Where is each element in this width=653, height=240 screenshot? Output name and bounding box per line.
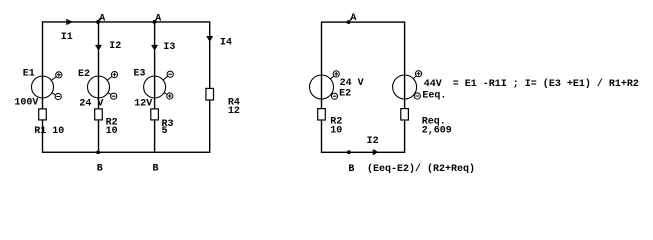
E2 plus terminal mark — [107, 72, 117, 81]
svg-text:E1: E1 — [23, 69, 35, 80]
svg-text:24 V: 24 V — [79, 98, 103, 109]
Eeq plus terminal mark — [413, 71, 421, 79]
node A (right circuit) — [347, 13, 357, 24]
current arrow I2 (right circuit) — [367, 136, 379, 155]
voltage source E2 — [78, 69, 110, 110]
resistor R4 — [206, 88, 240, 117]
svg-text:B: B — [97, 164, 103, 175]
current arrow I4 — [207, 37, 232, 49]
resistor R3 — [151, 109, 174, 137]
svg-text:100V: 100V — [14, 98, 38, 109]
svg-text:A: A — [155, 14, 161, 25]
svg-text:= E1 -R1I ; I= (E3 +E1) / R1+R: = E1 -R1I ; I= (E3 +E1) / R1+R2 — [453, 78, 639, 90]
resistor R2 (right circuit) — [318, 109, 343, 137]
svg-text:5: 5 — [162, 126, 168, 137]
wire: left circuit branch 2 vertical (E2/R2) — [98, 22, 100, 152]
svg-text:E3: E3 — [134, 69, 146, 80]
wire: left circuit outer loop (top, branch 1 vertical, branch 4 vertical, bottom) — [43, 22, 210, 152]
resistor R2 — [95, 109, 118, 137]
voltage source Eeq — [393, 75, 447, 102]
svg-text:44V: 44V — [424, 79, 442, 90]
svg-text:12V: 12V — [134, 98, 152, 109]
voltage source E1 — [14, 69, 53, 109]
svg-text:10: 10 — [106, 126, 118, 137]
E2 (right) minus terminal mark — [331, 93, 337, 99]
node A (top of branch 3) — [153, 14, 162, 25]
junction dot (bottom node B) — [96, 150, 100, 154]
voltage source E3 — [134, 69, 166, 110]
svg-text:(Eeq-E2)/ (R2+Req): (Eeq-E2)/ (R2+Req) — [367, 163, 475, 175]
resistor R1 — [34, 109, 64, 137]
E2 minus terminal mark — [108, 93, 117, 100]
E3 minus terminal mark (top) — [163, 71, 173, 80]
svg-text:12: 12 — [228, 106, 240, 117]
E1 minus terminal mark — [52, 93, 61, 100]
E2 (right) plus terminal mark — [331, 71, 340, 79]
svg-text:2,609: 2,609 — [422, 125, 452, 136]
svg-text:I2: I2 — [109, 41, 121, 52]
current arrow I1 — [61, 19, 73, 43]
svg-text:I2: I2 — [367, 136, 379, 147]
svg-text:I1: I1 — [61, 32, 73, 43]
svg-text:10: 10 — [330, 125, 342, 136]
current arrow I3 — [152, 42, 176, 53]
svg-text:E2: E2 — [78, 69, 90, 80]
svg-text:Eeq.: Eeq. — [422, 91, 446, 102]
svg-text:B: B — [153, 164, 159, 175]
resistor Req — [401, 109, 452, 137]
node A (top of branch 2) — [96, 14, 105, 25]
wire: left circuit branch 3 vertical (E3/R3) — [154, 22, 156, 152]
current arrow I2 — [95, 41, 121, 52]
wire: right circuit loop (top, left vertical E2/R2, right vertical Eeq/Req, bottom) — [322, 22, 405, 152]
svg-text:R1 10: R1 10 — [34, 126, 64, 137]
svg-text:B: B — [348, 164, 354, 175]
junction dot (node B, right circuit) — [347, 150, 351, 154]
voltage source E2 (right circuit) — [310, 75, 364, 99]
E3 plus terminal mark (bottom) — [164, 93, 173, 100]
svg-text:I4: I4 — [220, 37, 232, 48]
svg-text:A: A — [99, 14, 105, 25]
svg-text:I3: I3 — [163, 42, 175, 53]
Eeq minus terminal mark — [414, 93, 420, 99]
svg-text:E2: E2 — [339, 88, 351, 99]
E1 plus terminal mark — [51, 72, 62, 81]
svg-text:A: A — [350, 13, 356, 24]
